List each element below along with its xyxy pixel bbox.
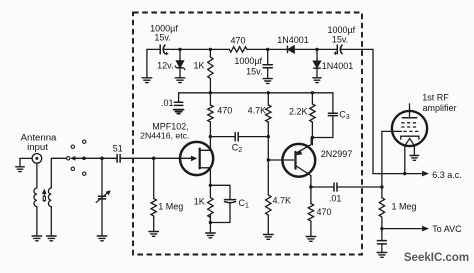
- svg-text:1K: 1K: [194, 197, 205, 207]
- svg-text:12v.: 12v.: [157, 61, 173, 71]
- svg-text:15v.: 15v.: [154, 33, 170, 43]
- band switch S1 contact: [67, 157, 70, 160]
- wire D2 to ground: [316, 68, 318, 77]
- wire AVC cap to ground: [381, 244, 383, 252]
- node 1K top: [209, 48, 212, 51]
- band switch S1 rotor node: [82, 157, 86, 161]
- node rail-4.7K: [267, 91, 270, 94]
- wire cap to zener node: [163, 48, 180, 50]
- node grid junction: [380, 185, 383, 188]
- wire variable capacitor to ground: [101, 199, 103, 236]
- node rail-1K: [209, 91, 212, 94]
- wire divider to base node: [267, 137, 269, 160]
- svg-text:To AVC: To AVC: [432, 224, 462, 234]
- diode 1N4001 shunt D2 lead: [316, 49, 318, 61]
- wire 2.2K to emitter node: [311, 122, 313, 145]
- resistor 470 collector: [308, 204, 313, 222]
- node heater tap: [403, 172, 406, 175]
- capacitor C2 coupling: [235, 133, 238, 141]
- ground supply left: [142, 78, 152, 83]
- vacuum tube heater leg left: [404, 146, 406, 174]
- wire ac cap to 6.3v corner: [340, 48, 373, 50]
- svg-text:1 Meg: 1 Meg: [392, 202, 417, 212]
- svg-text:.01: .01: [161, 98, 174, 108]
- band switch S1 wiper arrow: [70, 156, 75, 161]
- svg-text:1 Meg: 1 Meg: [158, 202, 183, 212]
- arrow 6.3 a.c.: [422, 171, 429, 177]
- wire filter cap to ground: [267, 68, 269, 79]
- wire 4.7K lower to ground: [267, 215, 269, 234]
- svg-text:C1: C1: [239, 198, 250, 210]
- wire 470 collector to ground: [310, 221, 312, 236]
- wire R470 to filter cap node: [247, 48, 268, 50]
- ground tube heater: [410, 156, 419, 161]
- zener diode 12v lead: [179, 49, 181, 60]
- svg-text:4.7K: 4.7K: [273, 196, 292, 206]
- ground L1: [32, 236, 42, 241]
- wire C51 to gate node: [120, 157, 154, 159]
- capacitor .01 decoupling: [174, 102, 182, 105]
- wire gate node to FET gate: [154, 157, 195, 159]
- resistor 4.7K lower: [266, 195, 271, 215]
- resistor 1 Meg input: [151, 199, 156, 217]
- wire 1K to rail: [209, 79, 211, 93]
- antenna connector J1: [32, 154, 42, 164]
- resistor 1 Meg grid: [379, 198, 384, 217]
- svg-text:1K: 1K: [193, 61, 204, 71]
- vacuum tube cathode: [401, 136, 419, 139]
- wire base node to Q2 base: [268, 159, 293, 161]
- transistor Q2 base bar: [294, 152, 296, 169]
- wire zener to ground: [179, 68, 181, 78]
- capacitor C2 coupling wire left: [210, 136, 235, 138]
- vacuum tube plate: [402, 117, 416, 119]
- wire source node to C1: [210, 185, 230, 199]
- wire 1 Meg to AVC node: [381, 217, 383, 229]
- transistor Q1 MPF102 JFET circle: [180, 142, 213, 175]
- node collector output: [309, 185, 312, 188]
- ground variable capacitor: [97, 236, 107, 241]
- resistor 1K source: [208, 198, 213, 218]
- wire supply rail left segment: [147, 49, 160, 77]
- svg-text:1st RF: 1st RF: [422, 93, 449, 103]
- ground zener: [175, 78, 185, 83]
- svg-text:input: input: [27, 142, 48, 153]
- variable capacitor arrow: [96, 190, 111, 203]
- vacuum tube plate lead: [409, 104, 411, 118]
- svg-text:1000µf: 1000µf: [234, 56, 262, 66]
- node emitter - C3: [311, 136, 314, 139]
- resistor 470 drain lead top: [209, 93, 211, 105]
- resistor 1K supply: [208, 57, 213, 79]
- transistor Q2 emitter lead with arrow: [296, 138, 312, 156]
- svg-text:C2: C2: [232, 143, 243, 155]
- node AVC: [380, 227, 383, 230]
- svg-text:C3: C3: [339, 110, 350, 122]
- capacitor 1000uf 15v filter lead: [267, 49, 269, 64]
- capacitor 1000uf 15v filter: [263, 65, 272, 68]
- wire D1 to D2 node: [294, 48, 317, 50]
- resistor 2.2K emitter: [310, 104, 315, 122]
- ground 470 collector: [306, 237, 316, 242]
- variable capacitor plates: [98, 196, 105, 199]
- svg-text:6.3 a.c.: 6.3 a.c.: [432, 170, 462, 180]
- transistor Q1 source lead: [200, 168, 211, 186]
- svg-text:15v.: 15v.: [332, 35, 348, 45]
- ground 4.7K lower: [264, 235, 274, 240]
- wire 1K node to R470 top: [210, 48, 229, 50]
- ground antenna: [16, 167, 25, 172]
- wire zener node to 1K node: [180, 48, 210, 50]
- node shunt diode: [315, 48, 318, 51]
- resistor 1 Meg grid lead: [381, 187, 383, 198]
- transistor Q1 gate arrow: [191, 156, 197, 162]
- svg-text:1N4001: 1N4001: [322, 61, 354, 71]
- capacitor AVC bypass: [378, 241, 387, 244]
- node source network: [209, 184, 212, 187]
- wire 6.3ac riser: [372, 49, 374, 173]
- capacitor 1000uf 15v input electrolytic: [160, 45, 168, 55]
- capacitor C3 bypass leads: [312, 93, 333, 138]
- node zener: [178, 48, 181, 51]
- wire C1 bottom loop to ground: [210, 203, 230, 223]
- node filter cap: [266, 48, 269, 51]
- svg-text:2N2997: 2N2997: [321, 149, 353, 159]
- wire antenna to ground: [20, 158, 32, 166]
- arrow To AVC: [422, 226, 429, 232]
- resistor 1 Meg input lead: [153, 158, 155, 198]
- svg-text:amplifier: amplifier: [423, 103, 457, 113]
- wire 1 Meg to ground: [153, 216, 155, 231]
- dashed power-supply box border: [133, 13, 362, 255]
- transistor Q2 collector lead: [296, 166, 311, 188]
- svg-text:470: 470: [217, 106, 232, 116]
- node C2 - base divider: [267, 135, 270, 138]
- wire grid riser: [382, 131, 402, 187]
- wire D2 node to input cap: [317, 48, 337, 50]
- wire 4.7K upper to C2 node: [267, 122, 269, 137]
- wire switch wiper: [75, 157, 85, 159]
- label 1st RF amplifier: [422, 93, 456, 113]
- ground AVC: [377, 253, 387, 258]
- resistor 4.7K lower lead: [267, 160, 269, 195]
- resistor 470 drain: [208, 105, 213, 122]
- node source ground junction: [209, 221, 212, 224]
- capacitor .01 output wire left: [311, 186, 334, 188]
- svg-text:15v.: 15v.: [246, 66, 262, 76]
- wire 1K source to ground: [209, 215, 211, 233]
- resistor 470 series supply: [229, 47, 247, 52]
- node variable-capacitor tap: [100, 157, 104, 161]
- capacitor .01 output coupling: [334, 183, 337, 191]
- resistor 4.7K upper: [266, 105, 271, 122]
- wire node to C51: [102, 157, 117, 159]
- wire filter node to diode D1: [268, 48, 288, 50]
- resistor 4.7K upper lead: [267, 93, 269, 105]
- ground .01 decoupling: [174, 110, 184, 114]
- tuning slug arrow: [42, 189, 47, 202]
- vacuum tube V1 envelope: [392, 111, 427, 146]
- resistor 470 collector lead: [310, 187, 312, 204]
- label 1000uf input: [150, 23, 178, 42]
- wire L1 to ground: [36, 207, 38, 236]
- wire L2 to ground: [50, 207, 52, 236]
- wire C2 to divider node: [238, 136, 268, 138]
- ground 1 Meg input: [149, 232, 159, 237]
- capacitor C1 source bypass: [225, 200, 236, 203]
- inductor L1 primary coil: [34, 188, 37, 207]
- svg-text:1N4001: 1N4001: [277, 35, 309, 45]
- label 1000uf filter: [234, 56, 262, 76]
- wire to AVC arrow: [382, 228, 424, 230]
- node gate / 1 Meg junction: [152, 157, 156, 161]
- ground filter cap: [263, 79, 272, 84]
- wire 470 drain to drain node: [209, 122, 211, 137]
- svg-text:51: 51: [113, 144, 123, 154]
- vacuum tube heater leg right: [413, 146, 415, 156]
- resistor 1K source lead: [209, 185, 211, 197]
- label Antenna input: [21, 132, 57, 153]
- svg-text:.01: .01: [329, 194, 342, 204]
- capacitor 1000uf 15v ac-input electrolytic: [334, 45, 342, 55]
- vacuum tube grid dashes: [401, 123, 418, 132]
- wire .01 output to grid node: [337, 186, 382, 188]
- wire switch to C-trim node: [84, 157, 102, 159]
- svg-text:470: 470: [317, 207, 332, 217]
- svg-text:470: 470: [230, 36, 245, 46]
- transistor Q1 drain lead: [200, 137, 211, 151]
- capacitor 51 pF series: [117, 155, 120, 163]
- ground shunt diode: [313, 78, 321, 83]
- svg-text:2.2K: 2.2K: [289, 107, 308, 117]
- transistor Q1 channel bar: [199, 149, 201, 169]
- node base: [267, 158, 270, 161]
- node rail-2.2K: [311, 91, 314, 94]
- vacuum tube heater filament: [405, 138, 415, 145]
- ground source network: [206, 233, 216, 238]
- ground L2: [47, 236, 57, 241]
- diode 1N4001 shunt D2: [313, 61, 321, 68]
- transistor Q2 2N2997 circle: [282, 144, 315, 177]
- node FET drain: [209, 135, 212, 138]
- wire antenna to L1: [36, 163, 38, 188]
- inductor L2 secondary coil: [48, 188, 51, 207]
- label 1000uf ac-input: [327, 25, 355, 44]
- wire decoupled rail: [179, 93, 333, 102]
- diode 1N4001 series D1: [288, 46, 295, 54]
- capacitor C3 bypass: [328, 113, 337, 115]
- svg-text:2N4416, etc.: 2N4416, etc.: [140, 130, 189, 140]
- zener diode 12v: [175, 61, 185, 70]
- wire L2 top to switch: [51, 158, 66, 188]
- svg-text:SeekIC.com: SeekIC.com: [404, 252, 469, 264]
- band switch S1 spare contacts: [71, 140, 86, 175]
- variable capacitor lead: [101, 158, 103, 196]
- resistor 1K supply lead: [209, 49, 211, 57]
- svg-text:4.7K: 4.7K: [248, 106, 267, 116]
- capacitor AVC bypass lead: [381, 229, 383, 241]
- resistor 2.2K emitter lead: [311, 93, 313, 104]
- label MPF102 2N4416 etc: [140, 121, 189, 140]
- wire 6.3ac horizontal: [373, 173, 424, 175]
